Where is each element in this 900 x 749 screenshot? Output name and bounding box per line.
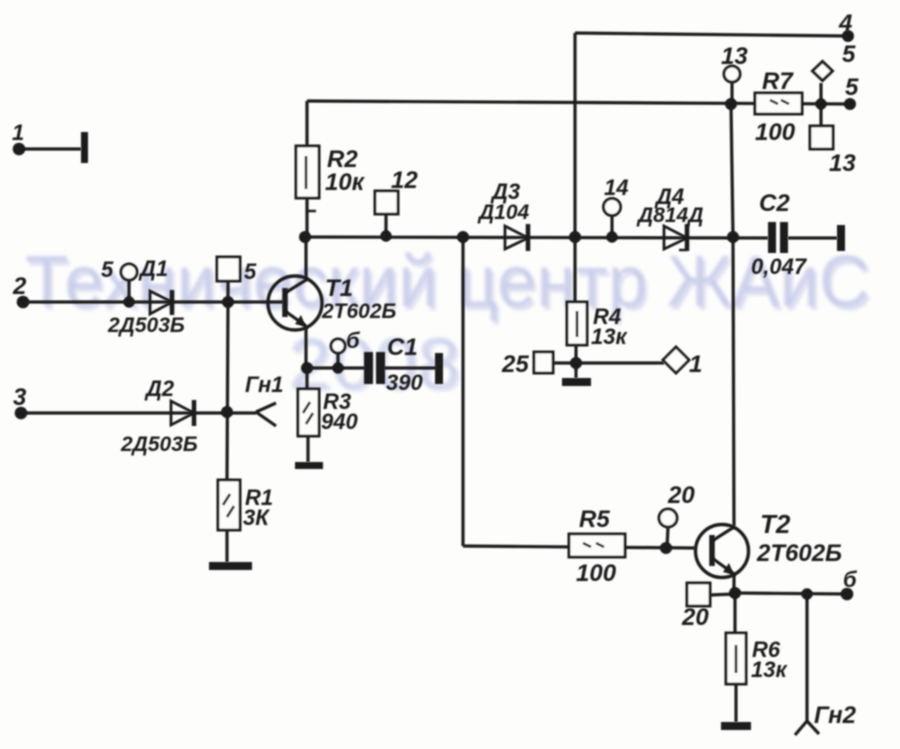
svg-text:0,047: 0,047: [751, 254, 808, 279]
svg-text:2Т602Б: 2Т602Б: [321, 300, 397, 323]
svg-text:R5: R5: [579, 506, 610, 533]
svg-text:Д814Д: Д814Д: [636, 204, 703, 227]
svg-text:3: 3: [13, 384, 27, 411]
svg-text:Т2: Т2: [760, 509, 791, 539]
svg-text:Д2: Д2: [144, 376, 175, 401]
svg-text:С1: С1: [387, 334, 418, 361]
svg-text:13: 13: [829, 150, 856, 177]
svg-text:10к: 10к: [325, 169, 366, 196]
svg-text:2Т602Б: 2Т602Б: [756, 540, 842, 567]
svg-text:14: 14: [604, 175, 628, 200]
svg-text:Д1: Д1: [138, 256, 168, 281]
svg-text:Технический центр ЖАиС: Технический центр ЖАиС: [25, 242, 870, 322]
svg-text:5: 5: [845, 74, 859, 101]
svg-text:12: 12: [391, 167, 418, 194]
svg-text:Д104: Д104: [477, 201, 530, 224]
svg-text:100: 100: [576, 560, 617, 587]
svg-text:б: б: [843, 567, 858, 592]
svg-text:3К: 3К: [243, 505, 270, 530]
svg-text:100: 100: [755, 119, 796, 146]
svg-text:25: 25: [501, 351, 529, 378]
svg-text:5: 5: [101, 257, 114, 282]
svg-text:2: 2: [12, 273, 27, 300]
svg-text:С2: С2: [759, 190, 790, 217]
svg-text:5: 5: [244, 259, 257, 284]
svg-text:1: 1: [689, 351, 702, 378]
svg-text:2Д503Б: 2Д503Б: [107, 314, 185, 337]
svg-text:Гн1: Гн1: [245, 372, 283, 397]
svg-text:390: 390: [386, 370, 423, 395]
svg-text:Т1: Т1: [325, 275, 353, 302]
svg-text:5: 5: [842, 41, 856, 68]
svg-text:20: 20: [667, 482, 695, 509]
svg-text:940: 940: [321, 409, 358, 434]
svg-text:1: 1: [12, 120, 24, 145]
svg-text:13к: 13к: [591, 324, 628, 349]
svg-text:2Д503Б: 2Д503Б: [120, 433, 198, 456]
svg-text:R7: R7: [762, 68, 794, 95]
svg-text:13: 13: [721, 43, 748, 70]
svg-text:13к: 13к: [751, 657, 788, 682]
svg-text:20: 20: [681, 604, 709, 631]
svg-text:б: б: [346, 328, 361, 353]
svg-text:4: 4: [838, 10, 852, 37]
svg-text:Гн2: Гн2: [814, 702, 857, 729]
